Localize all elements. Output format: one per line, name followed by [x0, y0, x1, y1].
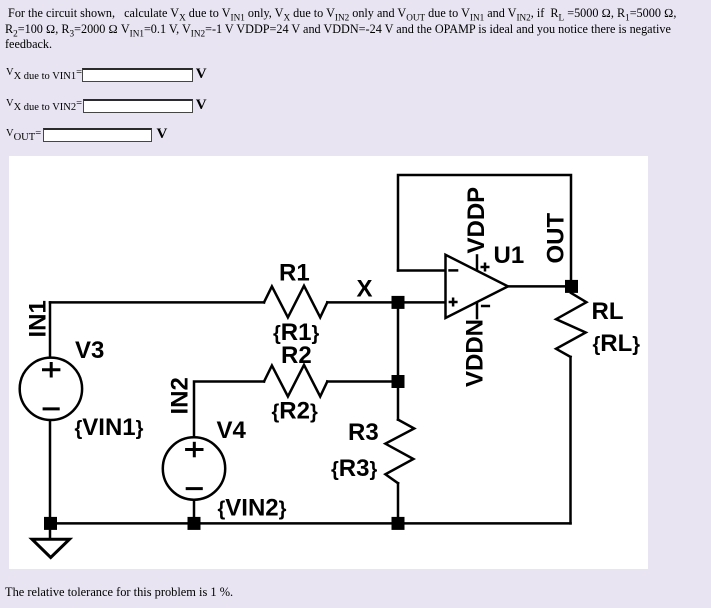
answer row VX due to VIN1 — [6, 67, 82, 78]
junction node X — [392, 296, 405, 309]
resistor R3 — [385, 420, 414, 484]
op-amp U1 — [446, 254, 509, 319]
wire V3 top vertical — [49, 302, 52, 358]
ground symbol — [32, 539, 70, 557]
svg-text:X: X — [357, 276, 373, 303]
svg-text:VDDP: VDDP — [463, 187, 490, 254]
svg-text:{R3}: {R3} — [331, 455, 377, 482]
problem statement paragraph — [5, 6, 711, 53]
svg-text:R2: R2 — [281, 342, 312, 369]
svg-text:R1: R1 — [279, 260, 310, 287]
svg-text:U1: U1 — [494, 242, 525, 269]
voltage source V4 — [163, 437, 225, 499]
wire IN2 corner to R2 — [194, 382, 264, 438]
tolerance note — [5, 585, 233, 600]
wire R1 to op-amp + input (node X) — [327, 301, 445, 304]
wire RL bottom vertical — [569, 357, 572, 524]
wire node X vertical — [397, 302, 400, 381]
junction V3 bottom / ground — [44, 517, 57, 530]
wire R3 bottom stub — [397, 483, 400, 523]
wire V3 bottom vertical — [49, 420, 52, 524]
op-amp inverting sign — [448, 269, 458, 272]
svg-text:IN2: IN2 — [167, 377, 194, 414]
svg-text:OUT: OUT — [543, 213, 570, 264]
wire IN1 to R1 — [50, 301, 264, 304]
wire bottom rail — [50, 522, 571, 525]
wire R2 to node above R3 — [327, 380, 398, 383]
wire ground stub — [49, 523, 52, 539]
svg-text:V3: V3 — [75, 337, 104, 364]
wire R3 top stub — [397, 382, 400, 420]
resistor R1 — [264, 286, 327, 318]
circuit schematic canvas — [9, 156, 648, 569]
svg-text:{R2}: {R2} — [272, 398, 318, 425]
junction R2/R3 node — [392, 375, 405, 388]
junction V4 bottom — [188, 517, 201, 530]
svg-text:R3: R3 — [348, 419, 379, 446]
junction R3 bottom — [392, 517, 405, 530]
svg-text:IN1: IN1 — [25, 300, 52, 337]
wire op-amp output — [508, 285, 572, 288]
op-amp VDDP pin stub — [476, 254, 479, 271]
svg-text:{VIN2}: {VIN2} — [218, 495, 287, 522]
answer row VX due to VIN2 — [6, 98, 82, 109]
op-amp VDDP plus sign — [481, 266, 490, 269]
wire V4 bottom vertical — [193, 500, 196, 524]
op-amp VDDN pin stub — [476, 302, 479, 319]
op-amp VDDN minus sign — [481, 305, 490, 308]
voltage source V3 — [20, 358, 82, 420]
wire op-amp inverting input — [398, 269, 446, 272]
answer row VOUT — [6, 128, 41, 139]
svg-text:{RL}: {RL} — [593, 330, 641, 357]
junction op-amp output — [565, 280, 578, 293]
wire feedback loop — [398, 175, 571, 286]
svg-text:RL: RL — [592, 298, 624, 325]
svg-text:V4: V4 — [217, 417, 247, 444]
op-amp non-inverting sign — [449, 301, 458, 304]
svg-text:VDDN: VDDN — [462, 319, 489, 387]
resistor RL — [556, 293, 586, 357]
resistor R2 — [264, 365, 327, 397]
svg-text:{VIN1}: {VIN1} — [75, 414, 144, 441]
